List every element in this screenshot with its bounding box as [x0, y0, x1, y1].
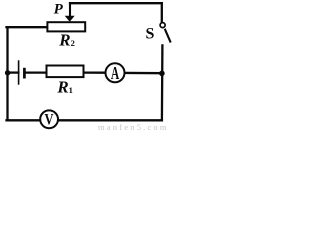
svg-text:2: 2 — [71, 38, 75, 48]
svg-text:S: S — [146, 25, 155, 42]
slider arrow stem of P — [69, 3, 71, 16]
voltmeter V — [40, 110, 58, 128]
slider arrowhead — [65, 16, 75, 22]
wire left vertical — [6, 27, 8, 120]
ammeter A — [106, 63, 125, 82]
wire ammeter to right junction — [125, 72, 162, 75]
svg-text:R: R — [56, 78, 68, 97]
node junction dot on right wire — [159, 71, 165, 77]
battery cell: short thick negative plate — [23, 68, 26, 79]
svg-text:A: A — [111, 65, 119, 84]
svg-text:manfen5.com: manfen5.com — [98, 122, 169, 131]
svg-text:R: R — [58, 31, 70, 50]
wire top horizontal — [70, 2, 162, 4]
wire R1 to ammeter — [84, 71, 106, 73]
svg-text:V: V — [44, 111, 54, 129]
wire top-left horizontal to R2 left end — [7, 26, 48, 28]
switch S arm (open) — [165, 29, 171, 43]
svg-text:1: 1 — [69, 85, 73, 95]
svg-text:P: P — [54, 2, 64, 18]
wire battery to R1 — [26, 71, 47, 73]
wire bottom horizontal — [7, 119, 162, 121]
wire right vertical upper (down to switch pivot) — [161, 3, 163, 22]
rheostat R2 box — [47, 22, 85, 31]
wire right vertical lower (switch to bottom corner) — [161, 45, 164, 120]
battery cell: long positive plate — [18, 60, 20, 84]
wire battery row: left wire to battery — [8, 71, 19, 73]
node junction dot on left wire — [5, 70, 10, 75]
switch S pivot circle — [160, 23, 165, 28]
resistor R1 box — [47, 66, 84, 78]
